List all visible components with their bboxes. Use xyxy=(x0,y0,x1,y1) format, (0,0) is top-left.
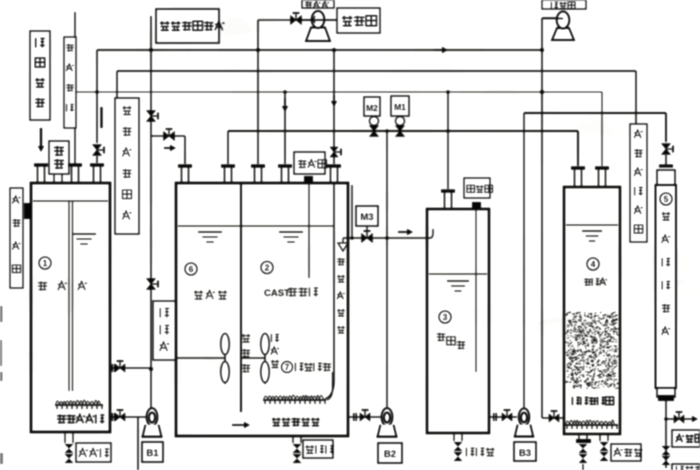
label box B3 xyxy=(514,442,536,461)
pump P2 (sludge pump) xyxy=(552,28,574,40)
svg-text:4: 4 xyxy=(591,259,596,269)
svg-text:CAST: CAST xyxy=(264,288,290,299)
bar screen box on tank1 top xyxy=(49,141,69,174)
wire sludge discharge riser x=151 xyxy=(150,16,152,136)
valve on drop x=334 xyxy=(330,147,338,157)
wire L3 thin header y=92 xyxy=(71,91,602,93)
wire drop x=334 from L1 to CAST tank xyxy=(333,50,335,164)
text: select zone xyxy=(194,291,203,300)
water level in T2 select zone xyxy=(198,231,222,233)
text: stirrer 2 (vertical) xyxy=(271,334,279,342)
flange on T1 top x=75 xyxy=(68,163,82,166)
circled number 2 xyxy=(261,262,273,274)
circled number 3 xyxy=(439,311,451,323)
svg-text:1: 1 xyxy=(43,258,48,268)
flange T2 f2 x=228 xyxy=(221,164,235,167)
scan smudge marks at left edge xyxy=(0,306,3,464)
pump B2 xyxy=(382,408,393,426)
diffuser in T4 xyxy=(566,420,614,424)
water level symbol in T1 xyxy=(72,233,96,235)
circled number 5 xyxy=(660,193,672,205)
wire L3 drop x=602 to sludge tank flange xyxy=(601,92,603,166)
label box: chemical tank xyxy=(337,8,380,33)
svg-text:7: 7 xyxy=(285,363,290,372)
stirrer 2 in CAST zone xyxy=(242,357,265,359)
wire T1 lower outlet y=417 to pump B1 xyxy=(110,416,147,418)
svg-text:M1: M1 xyxy=(394,102,406,112)
valve on riser x=151 xyxy=(147,111,156,122)
svg-text:5: 5 xyxy=(664,194,669,204)
water level in T2 CAST zone xyxy=(279,231,303,233)
text: clear water tank (diagonal) xyxy=(437,333,446,342)
flange T4 f1 x=578 xyxy=(571,166,585,169)
svg-text:2: 2 xyxy=(265,263,270,273)
wire x=448 from L3/bus to T3 xyxy=(447,92,449,189)
tall label box: dosing unit (left) xyxy=(115,98,139,234)
drop pipe inside T1 xyxy=(68,201,70,391)
wire sterilizer outlet down xyxy=(665,401,667,468)
flange T2 f5 x=334 xyxy=(327,164,341,167)
wire tank1 feed drop x=97 xyxy=(96,50,98,143)
label box: periodic sludge discharge xyxy=(156,9,219,43)
text: photocatalytic sterilizer (vertical) xyxy=(662,212,671,220)
text: perforated aerator T1 xyxy=(57,415,104,424)
label box B2 xyxy=(378,443,402,463)
motor valve M1 on bus xyxy=(391,96,409,116)
circled number 4 xyxy=(587,258,599,270)
label box above pump P2 xyxy=(542,0,586,9)
text: sludge tank xyxy=(584,278,592,286)
svg-text:6: 6 xyxy=(189,264,194,274)
valve on T3 outlet xyxy=(502,413,512,421)
svg-text:M3: M3 xyxy=(360,212,373,223)
diffuser in CAST zone xyxy=(264,395,323,399)
svg-text:B3: B3 xyxy=(519,448,531,459)
T4 bottom drains and blowoff label xyxy=(578,434,580,439)
tank T3: clear water tank xyxy=(427,209,489,433)
label box: influent source (top-left) xyxy=(30,31,50,120)
circled number 6 xyxy=(185,263,197,275)
label box: level gauge on T3 xyxy=(464,178,490,198)
wire drop x=285 from L3 to CAST tank xyxy=(284,92,286,164)
T2 bottom drain and blowoff label xyxy=(292,436,294,443)
circled number 1 xyxy=(39,257,51,269)
wire f2 up to bus xyxy=(227,131,229,164)
wire T1 upper outlet y=368 xyxy=(110,367,151,369)
text: regulating tank xyxy=(38,282,47,291)
text in right channel (vertical) xyxy=(337,258,345,266)
flange T2 f1 x=185 xyxy=(178,164,192,167)
drain drop below B1 suction xyxy=(137,417,139,470)
label box: reuse water xyxy=(672,430,700,447)
dosing pipe into CAST tank xyxy=(308,182,310,278)
valve at pump P1 xyxy=(291,16,302,25)
flange T4 f2 x=602 xyxy=(595,166,609,169)
svg-text:M2: M2 xyxy=(366,103,378,113)
flow arrow on decant line xyxy=(398,231,411,233)
standpipe inside T3 xyxy=(475,209,477,372)
wire L4 drop x=666 to sterilizer xyxy=(665,113,667,142)
tee to reuse water branch xyxy=(664,417,668,421)
label box above pump P1 xyxy=(302,0,334,8)
arrow on L1 xyxy=(434,49,446,51)
valve on T2 outlet xyxy=(360,413,370,421)
flange T2 f3 x=258 xyxy=(251,164,265,167)
stirrer 1 in select zone xyxy=(177,357,225,359)
T1 bottom drain and blowoff label xyxy=(64,432,66,443)
tank T1: regulating tank xyxy=(31,183,110,432)
inlet fitting on tank1 left wall xyxy=(24,203,31,219)
wire L2 drop to dosing unit box xyxy=(116,71,118,98)
T3 bottom drain and blowoff label xyxy=(453,433,455,441)
wire main bus y=131 xyxy=(228,130,578,132)
valve on T1 lower outlet xyxy=(115,413,125,421)
valve on branch y=136 xyxy=(164,132,175,141)
sterilizer column body xyxy=(659,164,673,167)
diffuser bubbles in T1 xyxy=(56,400,100,404)
label box: nutrient (vertical) xyxy=(153,301,176,360)
decant line entry hook into T3 xyxy=(427,229,433,238)
sludge speckle fill xyxy=(564,312,619,389)
wire T2 outlet to pump B2 xyxy=(348,416,386,418)
pump B3 xyxy=(519,408,530,425)
valve on sterilizer drain xyxy=(662,446,671,455)
wire L1 sludge header y=50 xyxy=(97,49,542,51)
flange T2 f4 x=285 xyxy=(278,164,292,167)
wire from device box down to tank1 flange xyxy=(74,128,76,164)
label box B1 xyxy=(142,442,163,462)
motor valve M2 on bus xyxy=(364,97,380,116)
pump B1 xyxy=(147,408,158,426)
text: perforated aerator T2 xyxy=(272,418,281,426)
motor valve M3 xyxy=(356,206,378,226)
label box: controller (vertical, right) xyxy=(630,124,647,242)
T2 freeboard line xyxy=(178,225,334,227)
wire riser x=542 pump P2 to sludge tank xyxy=(542,17,557,19)
svg-text:3: 3 xyxy=(443,312,448,322)
label box: inlet (far left vertical) xyxy=(10,188,23,288)
valve on reuse branch xyxy=(674,415,684,423)
pump P1 suction pipe from riser x=258 xyxy=(258,19,311,21)
wire riser x=524 B3 to L4 xyxy=(523,113,525,408)
wire decant line y=238 to tank3 xyxy=(343,237,427,239)
wire into sludge tank with valve y=418 xyxy=(542,417,564,419)
valve on tank1 feed xyxy=(93,145,102,156)
wire weir drain x=352 xyxy=(351,185,353,238)
valve above sterilizer xyxy=(662,144,671,155)
water level in T4 xyxy=(582,230,602,232)
wire L2 header y=71 xyxy=(117,70,636,72)
arrow to reuse outlet xyxy=(692,418,696,420)
label box: dosing port on CAST tank xyxy=(294,152,325,174)
T3 freeboard line xyxy=(429,273,487,275)
circled number 7 and main reaction zone text xyxy=(282,362,293,373)
text: stirrer 1 (vertical) xyxy=(242,334,251,342)
T2 divider wall xyxy=(240,183,242,412)
flange on T1 top x=41 xyxy=(34,163,48,166)
arrow from influent label down xyxy=(40,128,42,150)
pump P1 (chemical transfer pump) xyxy=(306,28,330,42)
second label box at bottom-right corner xyxy=(672,464,700,470)
flange on T1 top x=97 xyxy=(90,163,104,166)
wire riser x=151 valve and nutrient dosing xyxy=(150,136,152,408)
flange T3 x=448 xyxy=(441,189,455,192)
tank T2: CAST reactor xyxy=(176,183,348,436)
wire branch y=136 to CAST tank inlet xyxy=(151,135,185,137)
water level in T3 xyxy=(447,280,469,282)
svg-text:B1: B1 xyxy=(146,448,159,459)
text: perforated aerator T4 xyxy=(572,397,580,405)
svg-text:B2: B2 xyxy=(384,449,396,460)
inline device box (flow meter) x=70 xyxy=(74,12,76,37)
T2 inner baffle right xyxy=(325,183,334,399)
wire T3 outlet to pump B3 xyxy=(489,416,517,418)
valve on riser x=151 y=286 xyxy=(147,279,156,290)
flow arrow under branch valve xyxy=(164,147,174,149)
funnel on decant line xyxy=(342,238,344,243)
tank T4: sludge tank xyxy=(564,187,620,434)
wire L4 header y=113 (B3 discharge to sterilizer) xyxy=(524,112,666,114)
flow arrow beside tank1 feed pipe xyxy=(100,107,102,128)
valve on T1 upper outlet xyxy=(115,364,125,372)
flow arrow under divider xyxy=(232,424,248,426)
wire riser x=387 B2 to bus xyxy=(386,131,388,409)
wire L2 drop x=636 to controller box xyxy=(635,71,637,124)
wire bus drop x=578 to sludge tank flange xyxy=(577,131,579,166)
T4 freeboard line xyxy=(566,224,618,226)
